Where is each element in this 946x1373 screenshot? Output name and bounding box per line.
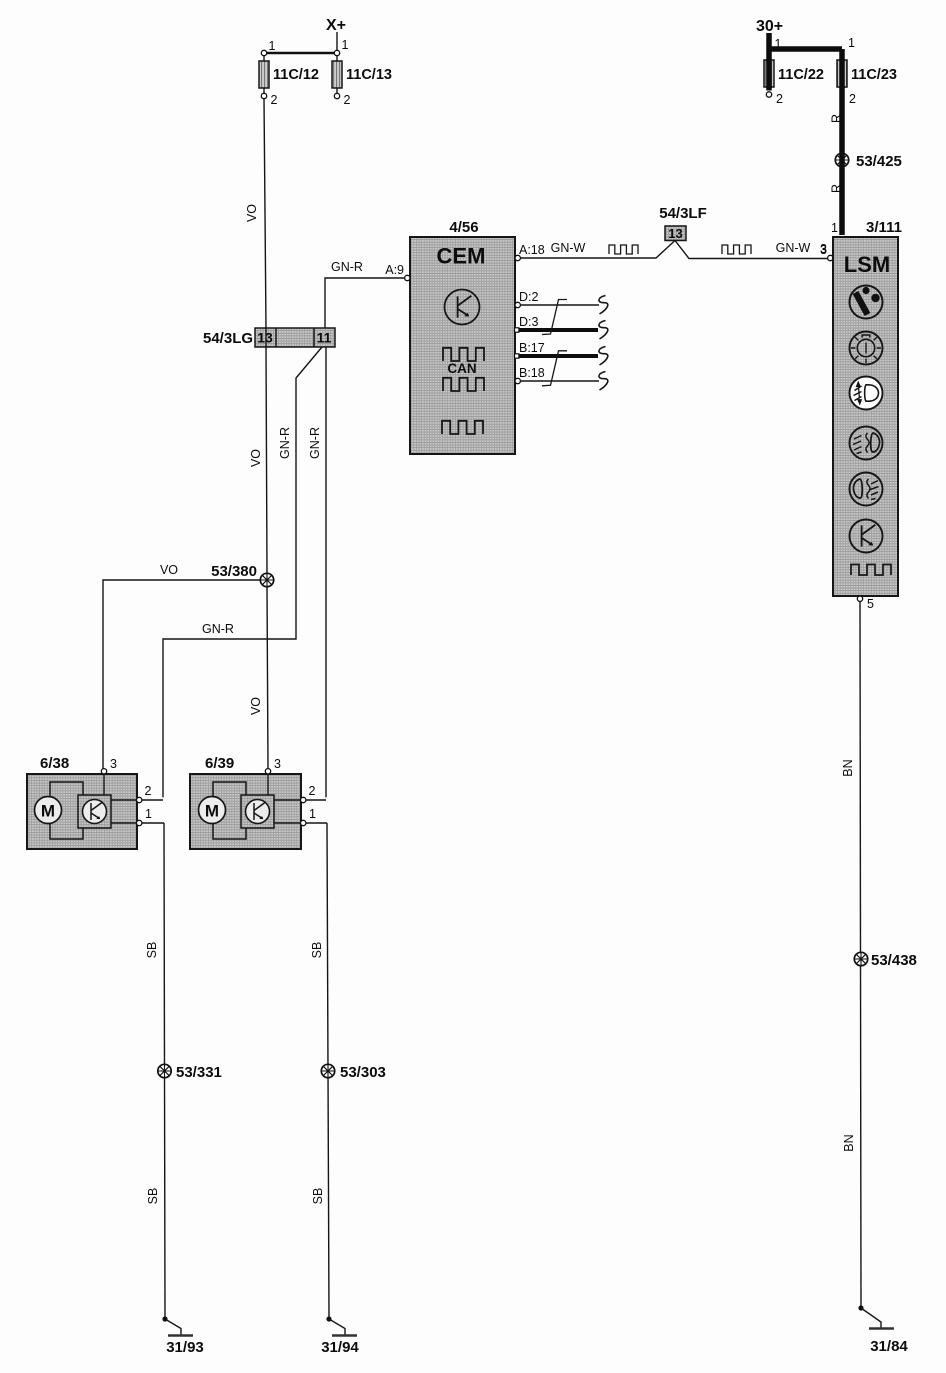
svg-text:31/93: 31/93 (166, 1339, 204, 1356)
svg-text:1: 1 (145, 807, 152, 821)
svg-text:31/94: 31/94 (321, 1339, 359, 1356)
svg-text:BN: BN (841, 759, 855, 776)
svg-text:1: 1 (775, 37, 782, 51)
svg-text:2: 2 (271, 93, 278, 107)
svg-text:B:18: B:18 (519, 366, 545, 380)
svg-text:2: 2 (776, 92, 783, 106)
svg-text:BN: BN (842, 1134, 856, 1151)
svg-text:1: 1 (342, 38, 349, 52)
svg-text:2: 2 (344, 93, 351, 107)
svg-text:53/425: 53/425 (856, 153, 902, 170)
svg-text:11C/23: 11C/23 (851, 67, 897, 83)
svg-text:1: 1 (831, 221, 838, 235)
svg-text:X+: X+ (326, 17, 346, 34)
svg-text:VO: VO (249, 697, 263, 715)
svg-text:2: 2 (849, 92, 856, 106)
svg-text:VO: VO (249, 449, 263, 467)
svg-text:B:17: B:17 (519, 341, 545, 355)
svg-text:CEM: CEM (437, 244, 486, 269)
svg-text:LSM: LSM (844, 252, 890, 277)
svg-text:11C/12: 11C/12 (273, 67, 319, 83)
svg-text:A:9: A:9 (385, 263, 404, 277)
svg-text:4/56: 4/56 (449, 219, 478, 236)
svg-text:1: 1 (269, 39, 276, 53)
svg-text:5: 5 (867, 597, 874, 611)
svg-text:D:2: D:2 (519, 290, 539, 304)
svg-text:53/380: 53/380 (211, 563, 257, 580)
svg-text:3: 3 (110, 757, 117, 771)
svg-text:31/84: 31/84 (870, 1338, 908, 1355)
svg-text:GN-R: GN-R (278, 427, 292, 459)
svg-text:GN-R: GN-R (308, 427, 322, 459)
svg-text:GN-W: GN-W (551, 241, 586, 255)
svg-text:SB: SB (310, 942, 324, 959)
svg-text:6/39: 6/39 (205, 755, 234, 772)
svg-text:3/111: 3/111 (866, 219, 902, 236)
svg-text:11C/22: 11C/22 (778, 67, 824, 83)
svg-text:30+: 30+ (756, 18, 783, 35)
svg-text:3: 3 (274, 757, 281, 771)
svg-text:GN-R: GN-R (331, 260, 363, 274)
svg-text:SB: SB (311, 1188, 325, 1205)
svg-text:53/331: 53/331 (176, 1064, 222, 1081)
svg-text:R: R (830, 184, 844, 193)
svg-text:M: M (41, 802, 55, 821)
svg-text:6/38: 6/38 (40, 755, 69, 772)
svg-text:11C/13: 11C/13 (346, 67, 392, 83)
svg-text:GN-R: GN-R (202, 622, 234, 636)
svg-text:CAN: CAN (447, 361, 476, 376)
svg-text:2: 2 (309, 784, 316, 798)
svg-text:2: 2 (145, 784, 152, 798)
svg-text:GN-W: GN-W (776, 241, 811, 255)
svg-text:13: 13 (668, 226, 682, 241)
svg-text:13: 13 (257, 330, 273, 346)
svg-text:VO: VO (245, 204, 259, 222)
svg-text:D:3: D:3 (519, 315, 539, 329)
svg-text:1: 1 (309, 807, 316, 821)
svg-text:54/3LG: 54/3LG (203, 330, 253, 347)
svg-text:VO: VO (160, 563, 178, 577)
svg-text:54/3LF: 54/3LF (659, 205, 707, 222)
svg-text:R: R (830, 114, 844, 123)
svg-text:53/438: 53/438 (871, 952, 917, 969)
svg-text:SB: SB (145, 942, 159, 959)
svg-text:1: 1 (848, 36, 855, 50)
svg-text:A:18: A:18 (519, 243, 545, 257)
svg-text:3: 3 (820, 242, 827, 256)
svg-text:M: M (205, 802, 219, 821)
svg-text:53/303: 53/303 (340, 1064, 386, 1081)
svg-text:SB: SB (146, 1188, 160, 1205)
svg-text:11: 11 (317, 330, 332, 346)
